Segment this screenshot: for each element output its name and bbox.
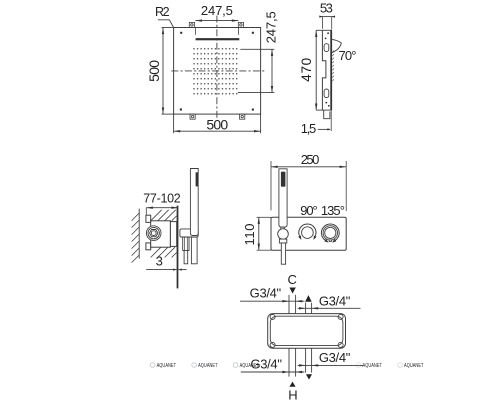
svg-text:AQUANET: AQUANET bbox=[363, 363, 383, 369]
hose nut front bbox=[279, 239, 286, 243]
wall line bbox=[138, 209, 140, 259]
wall hatch bbox=[132, 213, 140, 263]
elbow nut ridges bbox=[183, 237, 185, 250]
centerline horizontal bbox=[171, 70, 265, 72]
corner boss top-left bbox=[270, 314, 275, 319]
dim 110: line bbox=[258, 217, 260, 250]
watermark 4 faint bbox=[356, 363, 382, 369]
dim 110: bottom extension bbox=[257, 249, 271, 251]
valve sleeve bbox=[170, 222, 176, 247]
dim 500 left arrows bbox=[162, 28, 164, 115]
watermark 2 bbox=[192, 363, 218, 369]
handle front dark face bbox=[281, 172, 286, 187]
dim 500 bottom: left extension bbox=[173, 114, 175, 133]
svg-text:G3/4": G3/4" bbox=[250, 286, 282, 301]
corner screw bottom-right bbox=[252, 108, 254, 110]
svg-text:AQUANET: AQUANET bbox=[157, 363, 177, 369]
dim 247,5 top: right arrow bbox=[232, 19, 239, 21]
valve flange tab bottom bbox=[146, 243, 151, 250]
shower head outer square bbox=[174, 28, 261, 115]
svg-text:C: C bbox=[288, 272, 297, 287]
dim 53 arrows bbox=[319, 16, 335, 18]
dim 247,5 top: line bbox=[195, 20, 238, 22]
knob right rotation arc bbox=[321, 224, 339, 240]
dim 247,5 right: line bbox=[271, 49, 273, 92]
knob right inner circle bbox=[325, 227, 336, 238]
panel top edge + extension bbox=[316, 29, 332, 31]
knob right outer circle bbox=[323, 226, 337, 240]
svg-text:G3/4": G3/4" bbox=[319, 294, 351, 309]
svg-text:500: 500 bbox=[206, 116, 228, 132]
handle front body bbox=[279, 169, 287, 227]
corner boss bottom-left bbox=[270, 342, 275, 347]
upper slot oval bbox=[324, 44, 329, 52]
dim G3/4 bottom-right arrows bbox=[299, 364, 318, 366]
dim 3: right arrow bbox=[179, 269, 182, 271]
knob right arc arrowheads bbox=[324, 239, 336, 243]
dim G3/4 top-right: line bbox=[298, 307, 361, 309]
svg-text:110: 110 bbox=[242, 224, 257, 246]
dim 110 arrows bbox=[258, 217, 260, 250]
dim 470: line bbox=[315, 30, 317, 110]
svg-text:AQUANET: AQUANET bbox=[404, 363, 424, 369]
pipe top-right port bbox=[305, 303, 307, 314]
svg-text:AQUANET: AQUANET bbox=[198, 363, 218, 369]
holder ball bbox=[278, 229, 289, 240]
waterfall slot bar bbox=[196, 38, 240, 40]
dim G3/4 top-left: line bbox=[240, 300, 304, 302]
cartridge hex nut bbox=[150, 230, 158, 237]
dim 247,5 top: left arrow bbox=[195, 19, 202, 21]
svg-text:53: 53 bbox=[320, 0, 333, 15]
knob left arc arrowheads bbox=[298, 236, 316, 240]
flow triangle up (H) bbox=[289, 382, 295, 387]
dim 3: left arrow bbox=[173, 269, 176, 271]
dim G3/4 bottom-right: line bbox=[298, 364, 363, 366]
label R2 leader bbox=[158, 20, 174, 28]
slot extension line right bbox=[237, 28, 239, 35]
svg-text:R2: R2 bbox=[155, 5, 170, 19]
dim 3: left line bbox=[146, 269, 176, 271]
pipe H (bottom-left port) bbox=[288, 348, 290, 376]
dim 77-102 arrows bbox=[146, 207, 178, 209]
holder bracket bbox=[180, 229, 198, 237]
plate hatch ticks bbox=[332, 51, 334, 82]
cartridge inner circle bbox=[151, 231, 156, 236]
dim 500 left: bottom extension bbox=[162, 113, 174, 115]
svg-text:500: 500 bbox=[146, 60, 162, 82]
dim 3: right tail bbox=[179, 269, 187, 271]
svg-text:H: H bbox=[288, 387, 297, 400]
flow triangle down (bottom-right) bbox=[306, 374, 312, 379]
mounting clip bottom-left bbox=[190, 114, 195, 119]
small dots lower box bbox=[325, 102, 327, 104]
small dots upper box bbox=[327, 32, 329, 34]
dim 500 left: line bbox=[162, 28, 164, 115]
dim 470 arrows bbox=[315, 30, 317, 110]
mounting clip top-left bbox=[189, 22, 194, 27]
dim 1,5: arrow bbox=[327, 128, 330, 130]
valve flange tab top bbox=[146, 215, 151, 222]
dim 500 bottom: line bbox=[174, 130, 261, 132]
dim 53: line bbox=[320, 16, 335, 18]
dim 1,5: arrow line bbox=[318, 128, 330, 130]
dim 247,5 right: bottom extension bbox=[238, 92, 275, 94]
valve body inner outline bbox=[270, 316, 343, 345]
handle dark stripe bbox=[196, 172, 198, 186]
dim G3/4 top-left arrows bbox=[282, 300, 302, 302]
housing profile left side bbox=[322, 30, 326, 110]
ceiling plate (1.5mm) heavy line bbox=[330, 30, 332, 110]
dim 500 bottom arrows bbox=[174, 130, 261, 132]
corner screw top-left bbox=[180, 32, 182, 34]
handle stem bbox=[281, 227, 285, 230]
tile face line (3mm) bbox=[177, 206, 179, 289]
corner screw top-right bbox=[252, 32, 254, 34]
nozzle dot grid 13x10 bbox=[193, 48, 237, 94]
pipe bottom-right port bbox=[305, 348, 307, 372]
bottom hook bbox=[324, 110, 330, 119]
wall section hatch below valve bbox=[151, 247, 177, 257]
svg-text:77-102: 77-102 bbox=[143, 191, 181, 205]
pipe C (top-left port) bbox=[288, 295, 290, 314]
watermark 1 bbox=[150, 363, 176, 369]
dim 250 arrows bbox=[271, 166, 346, 168]
svg-text:1,5: 1,5 bbox=[301, 121, 317, 136]
corner screw bottom-left bbox=[180, 108, 182, 110]
svg-text:247,5: 247,5 bbox=[263, 11, 278, 43]
handle body bbox=[190, 169, 198, 236]
svg-text:G3/4": G3/4" bbox=[250, 356, 282, 371]
outlet elbow nut bbox=[183, 237, 189, 250]
svg-text:70°: 70° bbox=[339, 48, 357, 63]
lower slot oval bbox=[324, 89, 329, 98]
dim G3/4 bottom-left: line bbox=[241, 371, 305, 373]
centerline vertical bbox=[216, 16, 218, 120]
dim 110: top extension bbox=[257, 216, 271, 218]
dim 1,5: plate extension line bbox=[330, 110, 332, 131]
svg-text:3: 3 bbox=[156, 254, 163, 269]
dim G3/4 bottom-left arrows bbox=[282, 371, 302, 373]
svg-text:135°: 135° bbox=[321, 203, 345, 218]
panel bottom edge + extension bbox=[316, 109, 331, 111]
knob right notch bbox=[329, 240, 331, 242]
tilt wedge 70deg bbox=[332, 39, 341, 52]
flow triangle up (top-right) bbox=[305, 295, 312, 302]
dim 53: right extension bbox=[331, 17, 333, 30]
dim 250: line bbox=[271, 166, 346, 168]
watermark 5 faint bbox=[398, 363, 424, 369]
flow triangle down (C) bbox=[289, 288, 295, 294]
elbow lower tube bbox=[184, 251, 188, 264]
wall section hatch above valve bbox=[151, 210, 177, 221]
knob left circle bbox=[302, 227, 314, 239]
dim 77-102: line bbox=[146, 207, 178, 209]
corner boss top-right bbox=[338, 314, 343, 319]
dim 53: left extension bbox=[322, 17, 324, 29]
mounting clip bottom-right bbox=[240, 114, 245, 119]
trim plate bbox=[271, 217, 346, 250]
svg-text:250: 250 bbox=[301, 152, 320, 167]
svg-text:G3/4": G3/4" bbox=[319, 350, 351, 365]
slot extension line left bbox=[194, 28, 196, 35]
dim 247,5 right: top extension bbox=[240, 48, 274, 50]
dim G3/4 top-right arrows bbox=[299, 307, 318, 309]
dim 500 bottom: right extension bbox=[260, 114, 262, 133]
knob left rotation arc bbox=[299, 224, 316, 236]
watermark 3 bbox=[233, 363, 259, 369]
dim 500 left: top extension bbox=[162, 27, 174, 29]
mounting clip top-right bbox=[238, 22, 243, 27]
dim 250: right extension bbox=[345, 161, 347, 211]
cartridge circles bbox=[146, 226, 161, 241]
svg-text:470: 470 bbox=[299, 58, 314, 82]
dim 247,5 right arrows bbox=[271, 49, 273, 92]
hose side bbox=[191, 237, 197, 264]
hose front bbox=[281, 243, 285, 264]
corner boss bottom-right bbox=[338, 342, 343, 347]
dim 77-102: left extension bbox=[145, 208, 147, 216]
svg-text:90°: 90° bbox=[300, 203, 318, 218]
valve body outer bbox=[268, 314, 346, 349]
dim 250: left extension bbox=[270, 161, 272, 210]
svg-text:247,5: 247,5 bbox=[201, 3, 233, 18]
valve body bbox=[151, 221, 171, 247]
